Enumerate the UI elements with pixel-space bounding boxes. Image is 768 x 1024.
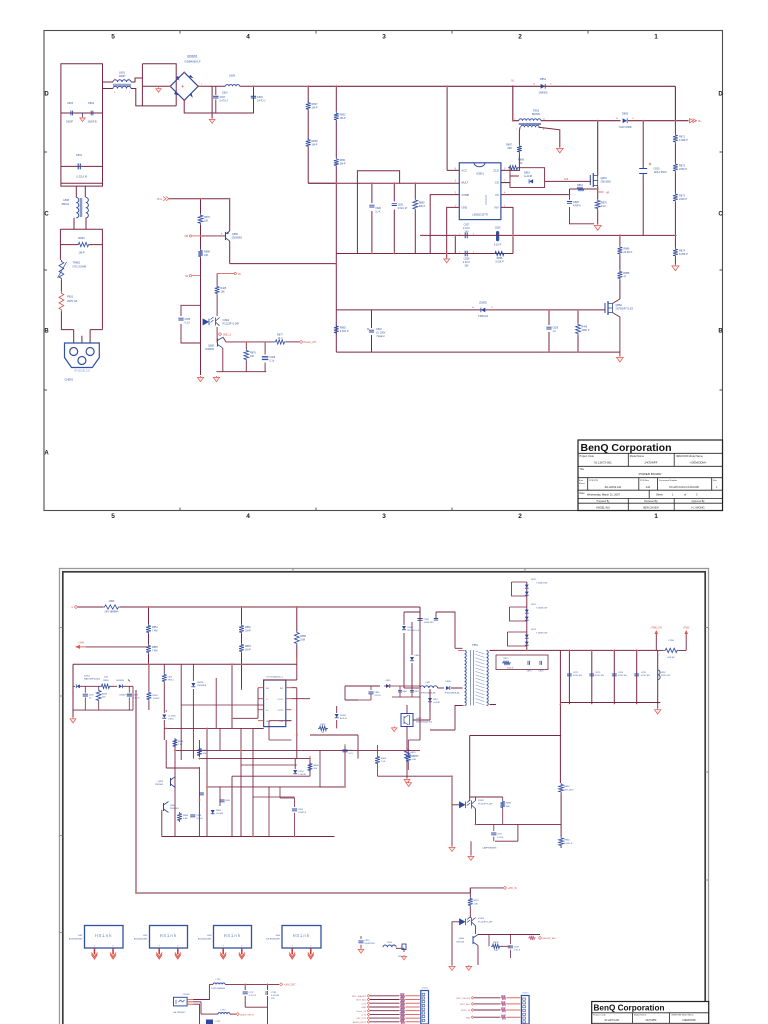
diode stack bypass loops [508, 582, 527, 646]
svg-text:2: 2 [177, 946, 178, 948]
svg-text:10K: 10K [102, 697, 106, 699]
svg-text:0.1U-K: 0.1U-K [514, 950, 521, 952]
svg-text:1K J: 1K J [278, 337, 284, 340]
svg-text:D854: D854 [299, 771, 305, 773]
svg-text:338U: 338U [222, 93, 228, 95]
svg-text:R875: R875 [504, 658, 510, 660]
svg-text:R849: R849 [103, 680, 109, 682]
resistor R807 1M [306, 101, 311, 111]
wire Q852 source to ground [612, 313, 620, 357]
resistor R882 9.31K [334, 325, 339, 335]
zener ZD851 [335, 714, 339, 718]
svg-text:0.22U/ M: 0.22U/ M [76, 175, 87, 179]
title block2 outer [592, 1002, 709, 1024]
resistor R807b 69K [517, 145, 522, 154]
svg-text:208K P: 208K P [582, 329, 590, 332]
svg-text:L808: L808 [63, 198, 69, 202]
svg-text:Q856: Q856 [459, 938, 465, 940]
svg-text:BS-B54565MT: BS-B54565MT [69, 938, 83, 940]
svg-text:9J.L2K72-001: 9J.L2K72-001 [605, 1019, 621, 1022]
net stub N2 [189, 275, 191, 277]
svg-text:L851: L851 [426, 682, 432, 684]
resistor R851f 187K [559, 783, 564, 794]
svg-text:JW528: JW528 [197, 682, 204, 684]
resistor R868 [308, 762, 313, 772]
AC inlet connector CN801 [65, 343, 100, 368]
svg-text:D870: D870 [531, 579, 537, 581]
resistor R876b 10K [245, 342, 247, 372]
svg-text:CN801: CN801 [65, 378, 74, 382]
capacitor C878 0.1U [508, 946, 513, 948]
ground R876s [406, 778, 408, 779]
wire right resistor chain [674, 121, 676, 265]
svg-text:2: 2 [113, 946, 114, 948]
wire branch R880 column [414, 183, 416, 253]
wire C820 column [642, 121, 644, 236]
svg-text:9.31K P: 9.31K P [340, 330, 349, 333]
svg-text:Reviewed By: Reviewed By [644, 501, 658, 503]
resistor R849 10K [100, 684, 111, 688]
svg-text:L790: L790 [216, 979, 222, 981]
resistor R856 3.01K [494, 251, 506, 255]
wire GND pin to ground [447, 207, 460, 257]
svg-text:7.32M/0.5W: 7.32M/0.5W [536, 608, 547, 610]
gate drive loop D863 [501, 168, 545, 188]
wire cluster vertical D864 [163, 664, 165, 740]
ground Q801 source [597, 224, 599, 225]
svg-text:D: D [718, 92, 723, 98]
svg-text:R804: R804 [78, 236, 85, 240]
transistor Q801 MOSFET [589, 175, 591, 185]
svg-text:0.1U-K: 0.1U-K [374, 695, 381, 697]
svg-text:0.47U-M: 0.47U-M [271, 995, 279, 997]
svg-text:R863: R863 [577, 185, 583, 187]
svg-text:FUNC_IN: FUNC_IN [461, 1010, 471, 1012]
ground mesh1 [393, 726, 395, 727]
svg-text:470U-16V: 470U-16V [641, 675, 651, 677]
resistor R865b 5.6K [177, 812, 182, 822]
resistor R858b 100 [491, 944, 501, 948]
wire branch C821 column [393, 183, 395, 253]
wire L790 to +16V_OUT [225, 983, 279, 985]
op-amp IC850 [264, 680, 286, 727]
svg-text:L809: L809 [229, 74, 235, 78]
resistor R856 10M [294, 631, 299, 645]
svg-text:+T800: +T800 [683, 628, 690, 630]
svg-text:Date:: Date: [580, 492, 586, 495]
sheet 2 outer border [60, 569, 709, 1024]
svg-text:R879: R879 [493, 942, 499, 944]
svg-text:C874: C874 [641, 672, 647, 674]
svg-text:1%/B-P: 1%/B-P [153, 698, 161, 700]
capacitor C871 [567, 674, 572, 676]
diode D860 second column [410, 657, 414, 661]
wire Q806 collector row [223, 337, 274, 342]
svg-text:24.9K P: 24.9K P [623, 251, 632, 254]
svg-text:C851: C851 [168, 677, 174, 679]
resistor R885 47 [618, 270, 623, 280]
wire upper mesh [258, 686, 380, 718]
svg-text:LL4148: LL4148 [433, 702, 441, 704]
svg-text:C871: C871 [573, 672, 579, 674]
title block date row [578, 490, 723, 498]
svg-text:MUT_ON/OFF: MUT_ON/OFF [456, 998, 470, 1000]
resistor R886 24.9K [618, 246, 623, 256]
svg-text:0.1U R: 0.1U R [494, 244, 502, 247]
heatsink block HS3 [214, 926, 252, 949]
resistor R871 4.99K [673, 134, 678, 144]
svg-text:2N3904S: 2N3904S [170, 808, 179, 810]
svg-text:D856: D856 [216, 810, 222, 812]
output arrow B+ [690, 119, 697, 123]
svg-text:7.4M: 7.4M [152, 629, 157, 632]
resistor R804 [77, 242, 90, 246]
svg-text:24(T)WPF: 24(T)WPF [645, 461, 658, 465]
svg-text:100P-K: 100P-K [507, 668, 514, 670]
svg-text:B: B [44, 329, 49, 335]
resistor R802 1M [334, 112, 339, 122]
wire opto collector [216, 295, 218, 316]
svg-text:187-1B-P: 187-1B-P [564, 789, 574, 791]
capacitor box C817 C818 [212, 86, 308, 113]
sheet 1 frame ticks [44, 31, 723, 511]
wire drop x148 [148, 607, 150, 664]
transistor Q853 [170, 778, 172, 786]
svg-text:BE 5W26B-T: BE 5W26B-T [174, 1012, 187, 1014]
svg-text:3300P B: 3300P B [88, 121, 98, 124]
svg-text:2N3906S: 2N3906S [232, 236, 242, 239]
svg-text:2N7000R-T1-E3: 2N7000R-T1-E3 [616, 308, 634, 311]
capacitor C865 group [368, 692, 373, 694]
svg-text:232K P: 232K P [679, 168, 688, 171]
svg-text:HSink: HSink [224, 933, 241, 939]
sheet 2 inner border [63, 572, 705, 1024]
svg-text:0.1U-K: 0.1U-K [497, 837, 504, 839]
svg-text:R883: R883 [506, 803, 512, 805]
svg-text:BS-B54565MT: BS-B54565MT [266, 938, 280, 940]
wire gate to Q801 [545, 180, 591, 182]
capacitor C868 [190, 815, 195, 817]
wire to L801 filter [103, 82, 114, 89]
zener diode ZD852 TZMC24 [481, 308, 485, 313]
capacitor C804 [91, 111, 93, 116]
svg-text:LAMP/KAIRNS: LAMP/KAIRNS [482, 846, 497, 849]
svg-text:R972: R972 [501, 1008, 506, 1010]
title block header line [578, 452, 723, 454]
wire Q801 drain up [597, 121, 599, 176]
wire R876s to ground [406, 760, 408, 778]
capacitor C820 1U-K [369, 205, 374, 207]
svg-text:GND: GND [361, 1007, 366, 1009]
svg-text:4: 4 [246, 34, 250, 41]
snubber box R/C [496, 655, 548, 670]
connector CN851 [521, 996, 529, 1024]
diodes D872 D873 [525, 610, 529, 613]
svg-text:C877: C877 [497, 834, 503, 836]
wire cluster vertical x181 [180, 664, 182, 740]
net stub AUDIO_RET [230, 1013, 236, 1015]
wire bridge mid [142, 85, 170, 87]
svg-text:C864: C864 [348, 750, 354, 752]
svg-text:24(T)WPF: 24(T)WPF [645, 1019, 657, 1022]
net label +24V arrow [86, 646, 149, 648]
svg-text:Project Code: Project Code [593, 1014, 606, 1017]
svg-text:10MH: 10MH [119, 75, 126, 78]
wire mult box outline [357, 171, 399, 254]
net stub NB [189, 235, 191, 237]
svg-text:C804: C804 [88, 102, 95, 105]
wire T801 primary to D802 [541, 120, 621, 122]
svg-text:NB: NB [185, 235, 189, 238]
svg-text:6.8K: 6.8K [412, 759, 417, 761]
svg-text:BYV26C-LF: BYV26C-LF [408, 630, 420, 632]
svg-text:<Spare>: <Spare> [376, 335, 386, 338]
svg-text:Q801: Q801 [601, 176, 608, 180]
svg-text:120U/ 450V: 120U/ 450V [654, 171, 668, 174]
wire bright vertical [469, 888, 471, 917]
wire Q850 base [201, 235, 226, 237]
svg-text:C825: C825 [495, 227, 501, 230]
svg-text:YG97-036R: YG97-036R [618, 126, 631, 129]
wire branch C820 column [371, 183, 373, 253]
wire R876 to ground [597, 210, 599, 224]
svg-text:1U: 1U [553, 330, 556, 333]
wire vertical column R802 R801 long [335, 86, 337, 310]
junction ticks sheet2 [135, 606, 638, 985]
svg-text:4.7U: 4.7U [348, 753, 353, 755]
inductor L801 common-mode choke [113, 80, 131, 82]
heatsink block HS4 [282, 926, 321, 949]
svg-text:+15V: +15V [361, 1015, 367, 1017]
svg-text:0.22: 0.22 [601, 205, 606, 208]
wire cluster vertical R850 [148, 664, 150, 710]
heatsink block HS2 [150, 926, 188, 949]
wire feedback rail [420, 234, 675, 236]
svg-text:3300P: 3300P [66, 121, 73, 124]
wire secondary bottom rail [490, 703, 661, 705]
svg-text:N16: N16 [564, 179, 569, 181]
wire top rail to right [308, 85, 513, 87]
svg-text:D852_2: D852_2 [223, 334, 232, 336]
svg-text:F801: F801 [67, 295, 74, 299]
svg-text:NTC 5OHM: NTC 5OHM [73, 265, 87, 269]
svg-text:Model Name: Model Name [630, 455, 645, 458]
wire Q852 drain [605, 299, 620, 310]
svg-text:D851: D851 [540, 77, 547, 81]
svg-text:D855: D855 [386, 680, 392, 682]
svg-text:V-: V- [266, 699, 268, 701]
svg-text:R971: R971 [400, 997, 405, 999]
svg-text:C848-F: C848-F [119, 695, 127, 697]
svg-text:PC123FY1-00F: PC123FY1-00F [478, 921, 493, 923]
diodes D870 D871 [525, 585, 529, 588]
svg-text:25V: 25V [271, 998, 275, 1000]
capacitor C826 2.2U [465, 251, 467, 257]
resistor R850 [146, 691, 151, 701]
svg-text:7.32M/0.5W: 7.32M/0.5W [536, 583, 547, 585]
net HR stub [598, 191, 604, 193]
ground opto852 [451, 846, 453, 847]
resistor R878 10K [198, 214, 203, 225]
svg-text:2SK3562: 2SK3562 [601, 181, 612, 184]
svg-text:2: 2 [310, 946, 311, 948]
svg-text:10K: 10K [250, 355, 255, 358]
svg-text:680UJ: 680UJ [62, 202, 70, 206]
svg-text:GD: GD [495, 181, 499, 185]
sheet 1 border frame [44, 31, 723, 511]
audio jack CN753 [174, 997, 188, 1006]
diode D852c 1N4148 [119, 684, 122, 688]
capacitor C803 [71, 111, 73, 116]
svg-text:L850: L850 [109, 600, 115, 603]
svg-text:C879: C879 [364, 940, 370, 942]
svg-text:C878: C878 [514, 947, 520, 949]
svg-text:R868: R868 [313, 765, 319, 767]
svg-text:1M-P: 1M-P [245, 629, 251, 632]
resistor R877 1K [274, 340, 286, 344]
title block row4 [578, 478, 723, 491]
resistor R846 [162, 673, 167, 683]
transformer T801 [519, 119, 541, 121]
net stub +16V_OUT [280, 983, 283, 986]
svg-text:C868: C868 [196, 815, 202, 817]
svg-text:5: 5 [111, 34, 115, 41]
grounds bright section [451, 965, 453, 966]
svg-text:COMP: COMP [462, 193, 470, 197]
svg-text:0.47U-J: 0.47U-J [220, 99, 229, 102]
title block row2 cells [578, 453, 723, 466]
svg-text:MUT_B(A)OFF: MUT_B(A)OFF [352, 995, 367, 998]
svg-text:CN753: CN753 [182, 994, 190, 996]
svg-text:B+: B+ [699, 119, 703, 123]
svg-text:1: 1 [654, 513, 658, 520]
resistor R874 8.25K [673, 248, 678, 258]
resistor R808 1M [306, 138, 311, 148]
svg-text:8-P SON&SOIC-L: 8-P SON&SOIC-L [266, 677, 283, 679]
svg-text:POWER BOARD: POWER BOARD [639, 472, 663, 476]
svg-text:4R7K-16V: 4R7K-16V [661, 675, 671, 677]
svg-text:HSink: HSink [95, 933, 112, 939]
svg-text:R876: R876 [410, 752, 416, 754]
svg-text:9J.L2K72-001.C3-301-006: 9J.L2K72-001.C3-301-006 [669, 486, 699, 489]
svg-text:C737: C737 [249, 992, 255, 994]
heatsink block HS1 [85, 926, 124, 949]
wire TR801 to fuse [60, 280, 62, 292]
resistor R87m 6.8K [406, 753, 411, 763]
svg-text:R970: R970 [400, 993, 405, 995]
svg-text:HSink: HSink [293, 933, 310, 939]
wire top rail sheet2 [78, 607, 421, 612]
svg-text:T801: T801 [533, 109, 540, 113]
svg-text:9V: 9V [238, 273, 241, 276]
svg-text:OEM/ODM Model Name: OEM/ODM Model Name [671, 1015, 694, 1017]
svg-text:N3904S: N3904S [205, 348, 214, 351]
svg-text:1U K: 1U K [375, 210, 381, 213]
ground below bridge [211, 118, 213, 119]
svg-text:C: C [44, 212, 49, 218]
svg-text:T851: T851 [472, 643, 478, 647]
resistor R867 47 [318, 726, 328, 730]
wire right edge drop [674, 86, 676, 120]
svg-text:4H.L2K02.A11: 4H.L2K02.A11 [605, 485, 622, 489]
capacitor C825 0.1U [496, 233, 499, 240]
wire secondary top rail [490, 649, 658, 651]
diode D858 [402, 626, 406, 630]
svg-text:B: B [718, 329, 723, 335]
svg-text:5: 5 [111, 513, 115, 520]
svg-text:+16V_OUT: +16V_OUT [284, 985, 296, 987]
svg-text:C739: C739 [215, 1021, 221, 1023]
svg-text:LL4148: LL4148 [524, 175, 533, 178]
svg-text:R973: R973 [400, 1005, 405, 1007]
diode D802 YG97 [623, 118, 627, 123]
svg-text:R971: R971 [501, 1002, 506, 1004]
wire mesh verticals left [166, 664, 232, 800]
resistor R876 0.22 [595, 199, 600, 210]
svg-text:BenQ Corporation: BenQ Corporation [594, 1003, 665, 1012]
svg-text:Document Number: Document Number [659, 479, 678, 482]
resistor R848 10K [98, 686, 100, 710]
wire R886 R885 column [619, 235, 621, 299]
wire drop x296 [296, 607, 298, 660]
wire mid bus lower [336, 253, 446, 255]
svg-text:0.1U: 0.1U [185, 321, 190, 324]
wire cluster vertical x193 diode D865 [192, 664, 194, 740]
svg-text:R857: R857 [474, 900, 480, 902]
svg-text:ZD851: ZD851 [340, 715, 347, 717]
svg-text:IC851: IC851 [84, 676, 91, 678]
svg-text:<OEM/ODM>: <OEM/ODM> [690, 461, 707, 465]
svg-text:2KV NHMM4: 2KV NHMM4 [105, 611, 120, 614]
svg-text:C859: C859 [424, 619, 430, 621]
svg-text:OEM/ODM Model Name: OEM/ODM Model Name [676, 455, 704, 458]
svg-text:D858: D858 [408, 627, 414, 629]
resistor R861h 643 [658, 649, 664, 651]
wire L808 to lower loop [74, 218, 86, 229]
svg-text:16V: 16V [464, 230, 469, 233]
svg-text:+16V_OUT: +16V_OUT [356, 1018, 367, 1020]
svg-text:R877: R877 [412, 756, 418, 758]
svg-text:0.1U-K: 0.1U-K [196, 818, 203, 820]
svg-text:1M-P: 1M-P [312, 106, 318, 109]
wire primary return [430, 706, 463, 731]
svg-text:MUT_ADJ: MUT_ADJ [356, 999, 366, 1002]
svg-text:2: 2 [518, 513, 522, 520]
svg-text:+24V: +24V [78, 641, 84, 645]
svg-text:HR: HR [606, 192, 610, 194]
resistor R880 20K [413, 199, 418, 211]
svg-text:R869: R869 [381, 758, 387, 760]
inductor L790 [209, 983, 213, 985]
wire CS pin to network [501, 189, 570, 195]
wire into T851 primary [451, 648, 463, 688]
svg-text:IC853: IC853 [478, 918, 485, 920]
svg-text:L6562D: L6562D [484, 194, 488, 205]
svg-text:R881: R881 [564, 786, 570, 788]
op-amp IC801 L6562 [459, 163, 501, 220]
svg-text:10K: 10K [104, 677, 108, 679]
wire mid-left bottom rail [162, 728, 335, 836]
wire VCC drop from top rail [447, 86, 459, 170]
wire lower source line [336, 310, 620, 352]
inductor L850 [103, 605, 120, 609]
svg-text:C876: C876 [539, 671, 545, 673]
IC850 pin stubs [258, 688, 291, 721]
wire T801 secondary right leg to ground [539, 127, 560, 147]
svg-text:C847: C847 [89, 695, 95, 697]
resistor R857m [173, 738, 178, 748]
svg-text:GND: GND [462, 206, 468, 210]
